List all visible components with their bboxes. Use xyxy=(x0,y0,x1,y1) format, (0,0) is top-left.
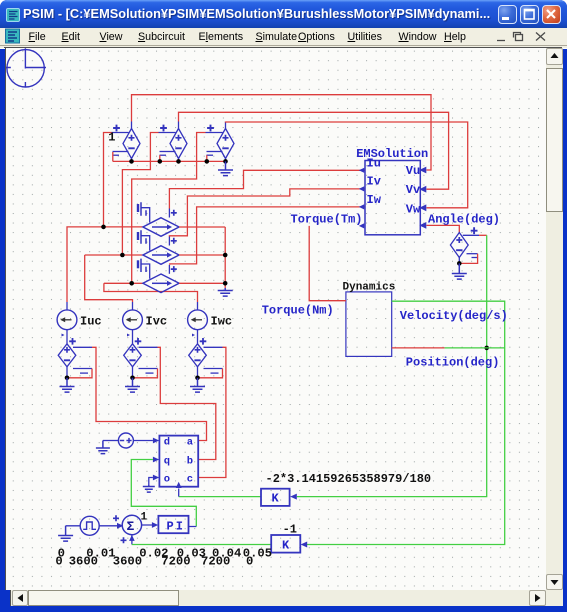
svg-text:Torque(Nm): Torque(Nm) xyxy=(262,304,334,318)
svg-text:d: d xyxy=(164,436,170,448)
ground symbol at VS xyxy=(58,526,73,541)
wire VA ctrl+ stub xyxy=(479,234,487,236)
wire VCCS G3 output to common bus xyxy=(179,282,225,284)
svg-text:Vv: Vv xyxy=(406,183,420,197)
junction dots on VCCS bus xyxy=(223,253,228,258)
Dynamics subcircuit block U2 xyxy=(346,292,392,357)
svg-text:-1: -1 xyxy=(283,523,297,537)
controlled current source G3 (diamond with arrow) xyxy=(138,259,179,293)
current sensor Iuc xyxy=(57,302,77,344)
controlled current source G2 (diamond with arrow) xyxy=(138,230,179,264)
junction dot VA bottom xyxy=(457,261,462,266)
wire E2 ctrl- to ground bus xyxy=(159,155,161,161)
svg-text:K: K xyxy=(282,538,290,552)
green wire sum to K2 output xyxy=(132,544,271,546)
svg-text:1: 1 xyxy=(141,512,148,524)
wire E2 ctrl+ to VCCS G2 and sensor Ivc - net B xyxy=(122,133,158,256)
svg-text:a: a xyxy=(187,436,194,448)
svg-text:b: b xyxy=(187,455,193,467)
svg-text:q: q xyxy=(164,455,170,467)
wire VIvc ctrl+ to transform block pin b xyxy=(158,347,216,459)
output arrows on left pins xyxy=(359,168,365,173)
Angle input arrow xyxy=(419,222,426,229)
svg-text:Vu: Vu xyxy=(406,164,420,178)
current sensor Iwc xyxy=(188,302,208,344)
svg-text:Iwc: Iwc xyxy=(211,315,233,329)
ground symbol at VD xyxy=(96,441,110,454)
svg-text:Velocity(deg/s): Velocity(deg/s) xyxy=(400,309,508,323)
controlled voltage source VIuc xyxy=(58,338,92,378)
wire VIvc ctrl- loop xyxy=(133,369,158,378)
wire E1 ctrl- to ground bus xyxy=(112,152,114,161)
green wire VA ctrl+ to K1 input - position net xyxy=(297,235,487,496)
bottom border xyxy=(0,606,567,612)
wire Position output red segment xyxy=(392,347,445,349)
svg-text:7200: 7200 xyxy=(161,555,190,569)
svg-text:3600: 3600 xyxy=(69,555,98,569)
junction dot VIvc bottom xyxy=(130,376,135,381)
PI block xyxy=(158,516,188,533)
wire Iw pin to VCCS G3 control xyxy=(170,207,365,265)
svg-text:Iu: Iu xyxy=(367,157,381,171)
controlled voltage source E2 (diamond) xyxy=(159,122,188,162)
wire VA ctrl- loop to bottom terminal xyxy=(459,254,477,264)
wire E3 ctrl+ to VCCS G3 and sensor Iwc - net C xyxy=(132,133,206,284)
ground symbol under VIwc xyxy=(190,378,205,392)
svg-text:Iuc: Iuc xyxy=(80,315,102,329)
svg-text:Torque(Tm): Torque(Tm) xyxy=(291,212,363,226)
title bar xyxy=(0,0,567,28)
ground symbol under VCCS bus xyxy=(218,288,233,296)
sum input arrow from VS xyxy=(117,523,123,529)
PI output stub xyxy=(189,526,197,528)
wire E3 output to Vw pin xyxy=(226,122,468,208)
plus sign at sum left input xyxy=(113,515,119,521)
controlled current source G1 (diamond with arrow) xyxy=(138,202,179,236)
junction dot net A xyxy=(101,225,106,230)
ground symbol under VIvc xyxy=(125,378,140,392)
ground symbol under VA xyxy=(452,263,467,279)
EMSolution DLL block U1 xyxy=(365,161,420,235)
bottom pin arrow theta xyxy=(176,482,182,488)
junction dots on ground bus xyxy=(129,159,134,164)
svg-text:Iw: Iw xyxy=(367,193,382,207)
menu bar xyxy=(0,28,567,45)
wire Angle pin to angle source VA xyxy=(427,225,460,232)
controlled voltage source E3 (diamond) xyxy=(206,122,235,162)
gain block K2 xyxy=(271,535,300,553)
svg-text:o: o xyxy=(164,474,170,486)
wire VCCS G2 output to common bus xyxy=(179,254,225,256)
step voltage source VS xyxy=(66,516,120,535)
horizontal scrollbar xyxy=(11,590,563,606)
green wire Velocity output to K2 input xyxy=(307,301,505,544)
wire VIwc ctrl- loop xyxy=(198,369,223,378)
green wire Position output xyxy=(445,347,505,349)
wire VIuc ctrl- loop xyxy=(67,369,92,378)
wire VIwc ctrl+ to transform block pin c xyxy=(198,347,226,477)
controlled voltage source VIvc xyxy=(124,338,158,378)
ground symbol under E3 xyxy=(218,161,233,175)
svg-text:Dynamics: Dynamics xyxy=(343,282,396,294)
junction dot VIuc bottom xyxy=(65,376,70,381)
abc-dqo transform block U3 xyxy=(159,436,198,487)
current sensor Ivc xyxy=(123,302,143,344)
VCCS common bus vertical wire xyxy=(224,227,226,288)
wire o pin to ground xyxy=(149,478,153,486)
svg-text:Σ: Σ xyxy=(127,519,135,534)
DC source VD for d input xyxy=(103,433,153,448)
svg-text:0: 0 xyxy=(55,555,62,569)
input arrows d q o xyxy=(153,438,159,444)
green wire PI output to q input xyxy=(131,460,196,527)
wire Iu pin to VCCS G1 control xyxy=(169,170,365,208)
gain block K1 xyxy=(261,489,290,506)
svg-text:Position(deg): Position(deg) xyxy=(406,356,500,370)
svg-text:7200: 7200 xyxy=(201,555,230,569)
controlled voltage source VA (angle) xyxy=(450,227,479,257)
wire VCCS G1 output to common bus xyxy=(179,226,225,228)
ground symbol at o pin xyxy=(143,485,155,492)
wire sum output to PI xyxy=(142,524,153,526)
wire E3 ctrl- to ground bus xyxy=(206,155,208,161)
controlled voltage source VIwc xyxy=(189,338,223,378)
ground bus wire under E1 E2 E3 xyxy=(113,160,226,162)
plus sign at sum bottom input xyxy=(121,537,127,543)
wire VIuc ctrl+ to transform block pin a xyxy=(92,347,207,440)
wire E1 output to Vu pin xyxy=(132,95,432,170)
green wire K1 output to transform theta input xyxy=(179,496,261,498)
ground symbol under VIuc xyxy=(60,378,75,392)
svg-text:Ivc: Ivc xyxy=(146,315,168,329)
sum bottom input wire xyxy=(131,535,133,545)
junction dot net C xyxy=(129,281,134,286)
clock symbol (free-run indicator) xyxy=(6,48,46,87)
wire Iv pin to VCCS G2 control xyxy=(169,189,365,237)
junction dot VIwc bottom xyxy=(195,376,200,381)
sum block S1 xyxy=(122,515,141,534)
svg-text:Iv: Iv xyxy=(367,175,381,189)
controlled voltage source E1 (diamond) xyxy=(112,122,141,162)
wire E1 ctrl+ to VCCS G1 and sensor Iuc - net A xyxy=(104,133,112,227)
wire Torque(Tm) to Dynamics input xyxy=(309,226,346,301)
svg-text:K: K xyxy=(272,492,280,506)
junction dot position net xyxy=(484,346,489,351)
svg-text:Angle(deg): Angle(deg) xyxy=(428,213,500,227)
svg-text:0: 0 xyxy=(246,555,253,569)
junction dot net B xyxy=(120,253,125,258)
vertical scrollbar xyxy=(546,48,563,590)
svg-text:c: c xyxy=(187,474,193,486)
svg-text:Vw: Vw xyxy=(406,202,421,216)
svg-text:3600: 3600 xyxy=(113,555,142,569)
wire E2 output to Vv pin xyxy=(179,112,449,189)
svg-text:PI: PI xyxy=(167,520,185,534)
svg-text:-2*3.14159265358979/180: -2*3.14159265358979/180 xyxy=(266,472,432,486)
